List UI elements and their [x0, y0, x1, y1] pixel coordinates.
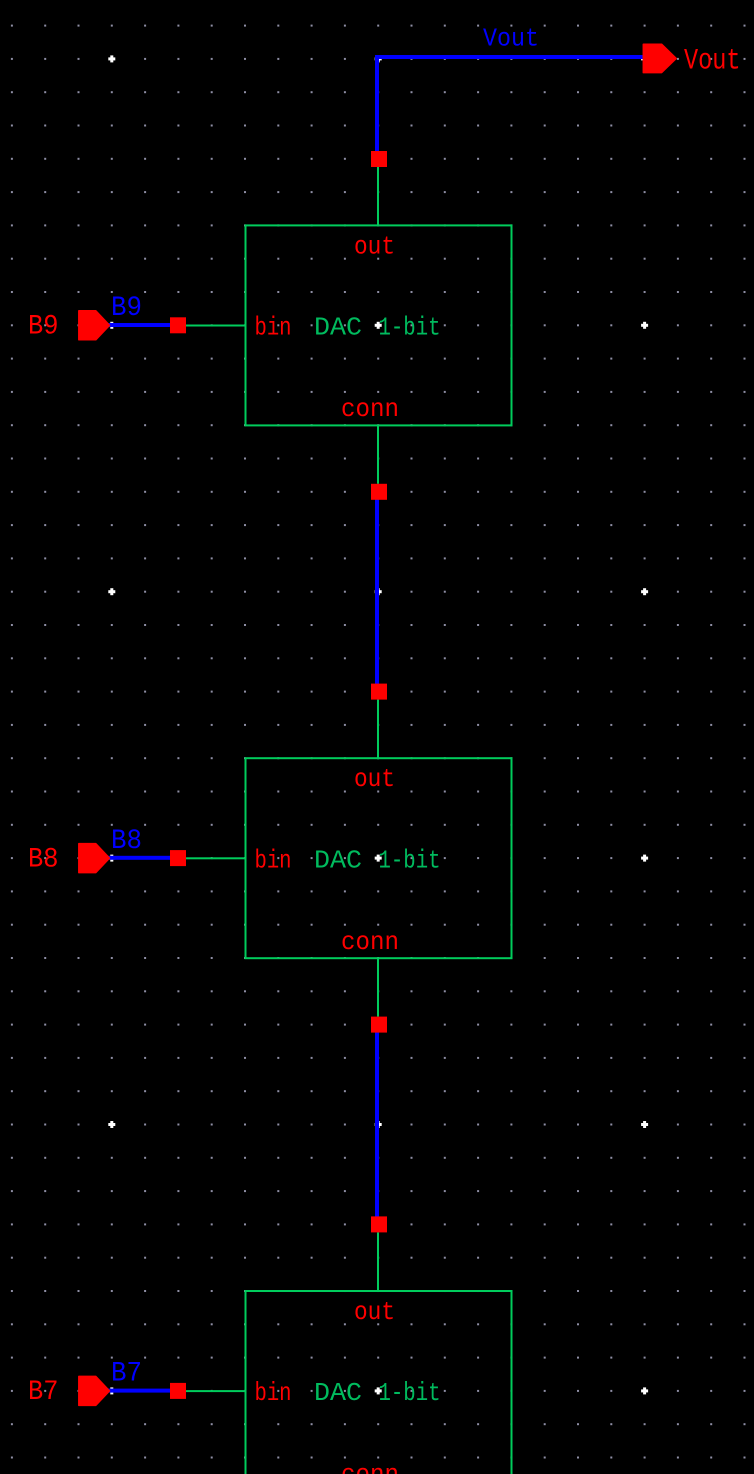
grid major cross (11,9) — [375, 322, 382, 329]
grid major cross (19,1) — [641, 55, 648, 62]
wire net Vout vertical segment — [375, 55, 379, 161]
wire net B8 blue segment from pin — [106, 856, 178, 860]
DAC 1-bit block instance 3 outline — [246, 1291, 512, 1474]
svg-text:B9: B9 — [28, 312, 59, 343]
grid major cross (3,9) — [108, 322, 115, 329]
grid major cross (11,41) — [375, 1387, 382, 1394]
wire net B7 blue segment from pin — [106, 1389, 178, 1393]
node square above block 3 — [371, 1216, 387, 1232]
wire bin stub into DAC block 2 — [186, 857, 246, 859]
svg-text:Vout: Vout — [684, 44, 741, 78]
wire net between DAC blocks 1-2 (blue segment) — [375, 492, 379, 692]
svg-text:bin: bin — [255, 313, 292, 343]
svg-text:conn: conn — [341, 1460, 399, 1474]
grid major cross (3,41) — [108, 1387, 115, 1394]
wire conn stub from DAC block 1 — [377, 426, 379, 484]
node square on B8 net — [170, 850, 186, 866]
node square below block 1 — [371, 484, 387, 500]
svg-text:conn: conn — [341, 927, 399, 957]
svg-text:B7: B7 — [111, 1359, 142, 1390]
node square below block 2 — [371, 1017, 387, 1033]
svg-text:B9: B9 — [111, 293, 142, 324]
grid major cross (11,1) — [375, 55, 382, 62]
svg-text:B7: B7 — [28, 1377, 59, 1408]
wire net between DAC blocks 2-3 (blue segment) — [375, 1025, 379, 1225]
wire net Vout horizontal segment — [375, 55, 648, 59]
DAC 1-bit block instance 2 outline — [246, 758, 512, 958]
node square on B7 net — [170, 1383, 186, 1399]
svg-text:1-bit: 1-bit — [379, 313, 441, 343]
svg-text:out: out — [354, 231, 395, 261]
wire out stub into DAC block 1 — [377, 167, 379, 226]
grid major cross (3,1) — [108, 55, 115, 62]
input pin symbol B7 — [79, 1376, 110, 1405]
grid major cross (19,41) — [641, 1387, 648, 1394]
svg-text:out: out — [354, 1297, 395, 1327]
svg-text:B8: B8 — [111, 826, 142, 857]
node square at Vout bend — [371, 151, 387, 167]
svg-text:bin: bin — [255, 845, 292, 875]
grid major cross (11,17) — [375, 588, 382, 595]
grid major cross (11,33) — [375, 1121, 382, 1128]
svg-text:out: out — [354, 764, 395, 794]
svg-text:1-bit: 1-bit — [379, 1378, 441, 1408]
svg-text:DAC: DAC — [314, 313, 362, 343]
grid major cross (19,9) — [641, 322, 648, 329]
grid major cross (3,25) — [108, 855, 115, 862]
grid major cross (19,25) — [641, 855, 648, 862]
svg-text:bin: bin — [255, 1378, 292, 1408]
wire bin stub into DAC block 1 — [186, 325, 246, 327]
svg-text:Vout: Vout — [483, 24, 539, 54]
node square on B9 net — [170, 317, 186, 333]
DAC 1-bit block instance 1 outline — [246, 225, 512, 425]
svg-text:1-bit: 1-bit — [379, 845, 441, 875]
grid major cross (3,17) — [108, 588, 115, 595]
input pin symbol B8 — [79, 844, 110, 873]
grid major cross (19,17) — [641, 588, 648, 595]
grid major cross (11,25) — [375, 855, 382, 862]
node square above block 2 — [371, 684, 387, 700]
svg-text:B8: B8 — [28, 844, 59, 875]
svg-text:DAC: DAC — [314, 1378, 362, 1408]
output pin symbol Vout — [643, 44, 676, 72]
wire bin stub into DAC block 3 — [186, 1390, 246, 1392]
svg-text:DAC: DAC — [314, 845, 362, 875]
wire conn stub from DAC block 2 — [377, 959, 379, 1017]
wire out stub into DAC block 3 — [377, 1232, 379, 1292]
grid major cross (19,33) — [641, 1121, 648, 1128]
wire net B9 blue segment from pin — [106, 323, 178, 327]
wire out stub into DAC block 2 — [377, 700, 379, 760]
input pin symbol B9 — [79, 311, 110, 340]
svg-text:conn: conn — [341, 394, 399, 424]
grid major cross (3,33) — [108, 1121, 115, 1128]
